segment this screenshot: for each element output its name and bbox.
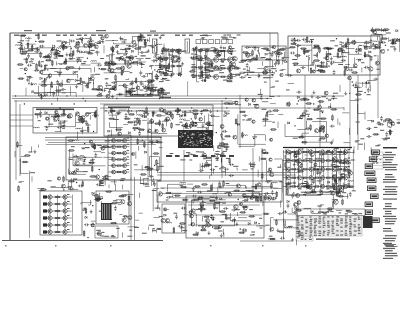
value label <box>250 235 254 236</box>
capacitor C141 <box>194 122 197 127</box>
capacitor C18 <box>70 40 75 43</box>
capacitor C129 <box>115 113 120 116</box>
transistor Q57 <box>218 67 222 71</box>
capacitor C191 <box>153 182 156 187</box>
wire <box>154 217 160 219</box>
wire <box>263 77 270 79</box>
resistor R205 <box>205 157 212 159</box>
inductor L16 <box>131 94 137 95</box>
value label <box>243 69 246 70</box>
value label <box>223 151 227 152</box>
wire <box>282 69 286 71</box>
wire <box>270 87 274 89</box>
wire <box>147 129 155 132</box>
value label <box>177 51 181 52</box>
wire <box>256 225 266 227</box>
junction node <box>149 66 150 67</box>
junction node <box>214 156 215 157</box>
wire <box>10 119 33 121</box>
wire <box>273 187 282 189</box>
wire <box>81 39 83 43</box>
diode D55 <box>384 120 386 122</box>
capacitor C46 <box>141 75 146 78</box>
value label <box>97 43 101 44</box>
resistor R239 <box>17 141 19 148</box>
wire <box>283 150 285 238</box>
value label <box>82 148 85 149</box>
resistor R212 <box>242 132 244 139</box>
wire <box>103 156 113 158</box>
value label <box>144 184 149 185</box>
resistor R153 <box>374 29 381 31</box>
transistor Q176 <box>257 183 261 187</box>
transistor Q113 <box>220 125 224 129</box>
resistor R254 <box>146 169 153 171</box>
resistor R76 <box>163 65 170 67</box>
value label <box>81 63 85 64</box>
value label <box>171 51 175 52</box>
transistor Q63 <box>277 50 281 54</box>
value label <box>67 208 70 209</box>
value label <box>141 110 145 111</box>
resistor R152 <box>355 94 362 96</box>
resistor R217 <box>320 118 327 120</box>
capacitor C78 <box>218 52 221 57</box>
transistor Q173 <box>251 195 254 198</box>
resistor R47 <box>111 63 118 65</box>
value label <box>201 38 204 39</box>
wire <box>197 114 209 128</box>
wire drop <box>43 83 45 96</box>
value label <box>321 126 325 127</box>
junction node <box>131 110 132 111</box>
resistor R328 <box>290 151 297 153</box>
wire <box>224 76 237 78</box>
audio amp block outline <box>66 137 161 180</box>
capacitor C32 <box>52 92 55 97</box>
transistor Q185 <box>200 203 204 207</box>
band switch outer box <box>40 191 82 235</box>
wire <box>365 81 367 88</box>
resistor R1 <box>38 33 40 40</box>
junction node <box>221 137 222 138</box>
wire <box>294 40 312 66</box>
inductor L27 <box>341 56 347 57</box>
wire <box>88 77 90 84</box>
resistor R62 <box>159 67 166 69</box>
capacitor C103 <box>295 44 300 47</box>
resistor R173 <box>137 118 139 125</box>
resistor R216 <box>272 110 279 112</box>
value label <box>375 34 378 35</box>
capacitor C49 <box>150 79 155 82</box>
wire <box>327 49 329 55</box>
transistor Q179 <box>267 196 272 201</box>
wire <box>371 35 386 44</box>
resistor R333 <box>290 160 297 162</box>
resistor R326 <box>261 173 263 180</box>
resistor R37 <box>125 90 132 92</box>
resistor R308 <box>200 206 202 213</box>
diode D22 <box>200 49 202 51</box>
signal wire <box>188 214 262 216</box>
inductor L53 <box>97 196 103 197</box>
transistor Q82 <box>364 46 368 50</box>
transistor Q84 <box>393 39 396 42</box>
test point TP5 <box>222 40 227 44</box>
junction node <box>306 56 307 57</box>
wire <box>213 145 215 151</box>
wire <box>150 66 152 69</box>
resistor R221 <box>299 99 306 101</box>
transistor Q140 <box>112 151 116 155</box>
value label <box>106 147 111 148</box>
value label <box>361 62 364 63</box>
value label <box>252 186 257 187</box>
junction node <box>352 81 353 82</box>
wire <box>253 162 255 169</box>
wire <box>39 189 45 191</box>
wire <box>245 186 247 189</box>
capacitor C208 <box>219 186 224 189</box>
transistor Q15 <box>90 76 94 80</box>
wire <box>151 118 153 186</box>
capacitor C115 <box>352 84 357 87</box>
ground <box>392 41 395 45</box>
resistor R307 <box>219 211 226 213</box>
wire <box>135 219 139 221</box>
resistor R15 <box>63 44 65 51</box>
value label <box>215 158 218 159</box>
resistor R138 <box>319 47 321 54</box>
value label <box>71 146 75 147</box>
value label <box>129 88 135 89</box>
value label <box>80 116 83 117</box>
switch contact S6 <box>43 230 47 233</box>
diode D32 <box>358 48 360 50</box>
wire <box>389 120 392 128</box>
junction node <box>363 45 364 46</box>
junction node <box>202 201 203 202</box>
capacitor C128 <box>55 113 58 118</box>
wire <box>259 225 264 227</box>
resistor R75 <box>163 57 170 59</box>
ground <box>147 49 150 53</box>
shield step band <box>146 90 171 98</box>
wire <box>305 41 308 43</box>
resistor R211 <box>262 119 269 121</box>
transistor Q68 <box>264 67 268 71</box>
transistor Q181 <box>191 222 195 226</box>
value label <box>77 83 81 84</box>
resistor R248 <box>144 141 146 148</box>
resistor R128 <box>303 51 310 53</box>
wire <box>113 68 116 70</box>
value label <box>211 47 215 48</box>
diode D3 <box>40 77 42 79</box>
resistor R151 <box>347 38 349 45</box>
diode D42 <box>108 130 110 132</box>
capacitor C154 <box>207 164 212 167</box>
value label <box>275 81 278 82</box>
transistor Q166 <box>57 177 60 180</box>
resistor R179 <box>124 118 131 120</box>
wire <box>357 82 365 84</box>
value label <box>158 69 163 70</box>
wire <box>43 196 57 198</box>
value label <box>333 93 338 94</box>
value label <box>158 181 161 182</box>
diode D35 <box>396 30 398 32</box>
transistor Q177 <box>250 196 254 200</box>
wire <box>147 74 149 77</box>
capacitor C198 <box>84 223 89 226</box>
ground <box>235 222 238 226</box>
signal wire <box>160 193 276 195</box>
resistor R167 <box>79 115 81 122</box>
wire <box>51 185 56 187</box>
wire drop <box>55 86 57 96</box>
ground <box>311 94 314 98</box>
capacitor C102 <box>302 38 307 41</box>
value label <box>297 118 303 119</box>
junction node <box>191 118 192 119</box>
value label <box>303 98 307 99</box>
resistor R121 <box>262 72 269 74</box>
wire <box>276 56 278 64</box>
ground <box>30 82 33 86</box>
wire <box>140 46 142 51</box>
wire <box>211 116 220 118</box>
resistor R10 <box>19 35 26 37</box>
diode D58 <box>144 151 146 153</box>
inductor L56 <box>254 193 260 194</box>
wire <box>339 122 341 125</box>
resistor R36 <box>87 82 89 89</box>
wire <box>50 68 57 70</box>
capacitor C57 <box>161 48 164 53</box>
wire <box>144 91 147 93</box>
wire drop <box>57 81 59 96</box>
transistor Q10 <box>75 44 79 48</box>
wire <box>357 86 359 135</box>
capacitor C26 <box>43 79 46 84</box>
value label <box>159 216 163 217</box>
wire <box>197 60 205 62</box>
transistor Q28 <box>127 60 131 64</box>
wire <box>202 64 206 74</box>
resistor R201 <box>186 122 188 129</box>
resistor R181 <box>154 123 161 125</box>
wire <box>120 158 130 160</box>
wire <box>312 121 326 142</box>
value label <box>215 208 218 209</box>
resistor R327 <box>262 152 269 154</box>
wire <box>120 165 130 167</box>
value label <box>27 76 32 77</box>
resistor R61 <box>121 69 123 76</box>
capacitor C14 <box>90 40 93 45</box>
transistor Q61 <box>147 79 151 83</box>
wire <box>204 163 206 168</box>
wire <box>399 39 400 52</box>
transistor Q167 <box>100 180 104 184</box>
resistor R252 <box>156 159 158 166</box>
resistor R21 <box>38 60 40 67</box>
wire <box>111 181 117 183</box>
value label <box>317 48 320 49</box>
capacitor C217 <box>231 209 236 212</box>
value label <box>73 179 77 180</box>
wire <box>233 57 235 61</box>
value label <box>87 42 90 43</box>
junction node <box>283 221 284 222</box>
wire <box>265 66 274 68</box>
wire <box>210 50 223 52</box>
value label <box>146 95 149 96</box>
value label <box>180 159 185 160</box>
capacitor C185 <box>83 160 86 165</box>
capacitor C167 <box>305 127 310 130</box>
inductor L59 <box>285 227 291 228</box>
value label <box>149 225 154 226</box>
transistor Q80 <box>369 67 373 71</box>
value label <box>262 109 267 110</box>
value label <box>140 90 144 91</box>
value label <box>246 120 251 121</box>
value label <box>327 61 330 62</box>
capacitor C68 <box>191 49 196 52</box>
wire <box>93 67 95 72</box>
resistor R142 <box>316 65 323 67</box>
wire <box>31 93 76 97</box>
junction node <box>46 65 47 66</box>
junction node <box>150 93 151 94</box>
diode D25 <box>209 75 211 77</box>
capacitor C189 <box>149 141 154 144</box>
value label <box>202 37 205 38</box>
transistor Q111 <box>234 101 238 105</box>
value label <box>317 118 322 119</box>
wire <box>367 46 377 48</box>
resistor R72 <box>144 39 146 46</box>
value label <box>186 152 190 153</box>
transistor Q163 <box>48 230 52 234</box>
resistor R109 <box>226 80 233 82</box>
capacitor C67 <box>161 78 166 81</box>
transistor Q27 <box>132 40 136 44</box>
wire <box>37 187 44 189</box>
transistor Q17 <box>98 85 103 90</box>
resistor R63 <box>115 74 117 81</box>
value label <box>90 50 94 51</box>
value label <box>272 122 275 123</box>
resistor R150 <box>345 42 347 49</box>
value label <box>140 84 144 85</box>
ground <box>380 28 383 32</box>
value label <box>67 201 70 202</box>
wire <box>249 164 251 168</box>
resistor R202 <box>222 143 229 145</box>
wire <box>201 55 203 61</box>
value label <box>111 236 116 237</box>
value label <box>127 150 130 151</box>
wire <box>36 114 59 126</box>
transistor Q151 <box>127 202 131 206</box>
resistor R226 <box>332 114 334 121</box>
resistor R174 <box>108 118 115 120</box>
transistor Q128 <box>101 146 105 150</box>
junction node <box>178 75 179 76</box>
value label <box>69 173 73 174</box>
wire <box>243 73 274 74</box>
diode D1 <box>37 49 39 51</box>
capacitor C206 <box>253 196 258 199</box>
wire <box>258 193 260 201</box>
transistor Q118 <box>286 102 290 106</box>
value label <box>374 55 377 56</box>
transistor Q1 <box>52 47 55 50</box>
transistor Q37 <box>121 66 125 70</box>
inductor L36 <box>134 118 140 119</box>
resistor R225 <box>310 124 312 131</box>
value label <box>182 51 185 52</box>
resistor R325 <box>260 158 267 160</box>
junction node <box>120 49 121 50</box>
transistor Q76 <box>375 61 379 65</box>
value label <box>226 39 229 40</box>
value label <box>141 55 145 56</box>
capacitor C93 <box>246 69 249 74</box>
driver block outline <box>162 204 185 233</box>
value label <box>164 67 168 68</box>
capacitor C54 <box>161 50 164 55</box>
resistor R110 <box>147 87 154 89</box>
diode D24 <box>223 47 225 49</box>
value label <box>180 185 184 186</box>
inductor L4 <box>85 38 91 39</box>
wire <box>89 161 93 163</box>
capacitor C9 <box>89 36 92 41</box>
IC module U1 (dark block) <box>178 130 213 148</box>
ladder rail wire <box>172 48 174 76</box>
wire <box>156 47 158 52</box>
transistor Q13 <box>24 68 27 71</box>
junction node <box>253 138 254 139</box>
value label <box>152 230 156 231</box>
transistor Q209 <box>297 158 301 162</box>
resistor R26 <box>65 58 67 65</box>
value label <box>57 41 62 42</box>
resistor R148 <box>364 51 366 58</box>
value label <box>378 34 383 35</box>
capacitor C99 <box>296 39 301 42</box>
wire <box>211 50 225 58</box>
resistor R195 <box>195 113 197 120</box>
ground <box>40 64 43 68</box>
value label <box>162 90 165 91</box>
wire <box>20 36 22 41</box>
junction node <box>326 63 327 64</box>
resistor R288 <box>260 195 262 202</box>
wire <box>344 43 350 45</box>
wire <box>121 232 123 237</box>
capacitor C224 <box>292 211 297 214</box>
resistor R123 <box>240 60 247 62</box>
value label <box>383 139 387 140</box>
transistor Q46 <box>213 48 218 53</box>
resistor R99 <box>220 67 227 69</box>
